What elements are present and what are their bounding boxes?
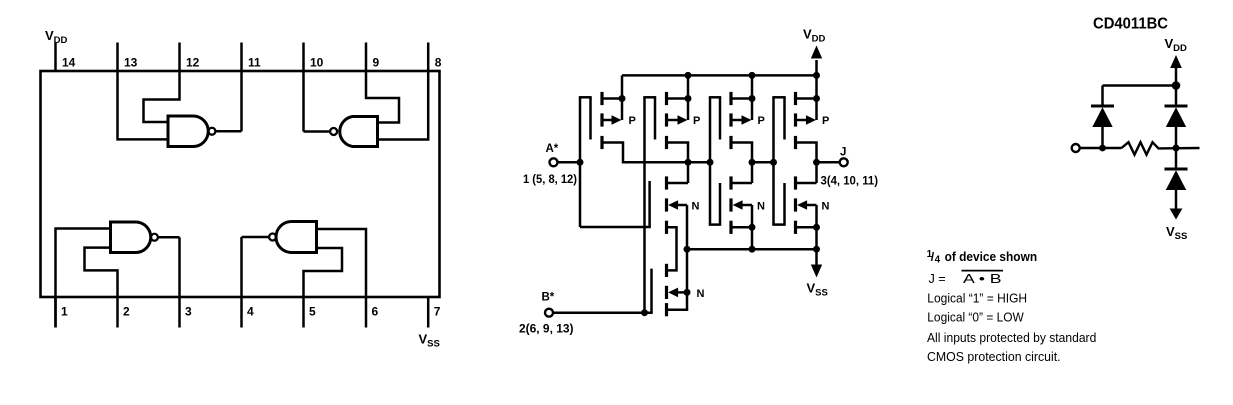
svg-text:4: 4 bbox=[935, 254, 941, 265]
svg-text:10: 10 bbox=[310, 56, 324, 70]
svg-text:A • B: A • B bbox=[963, 272, 1002, 286]
svg-text:N: N bbox=[697, 288, 705, 300]
svg-text:1: 1 bbox=[61, 305, 68, 319]
svg-text:9: 9 bbox=[373, 56, 380, 70]
svg-text:8: 8 bbox=[435, 56, 442, 70]
svg-text:A*: A* bbox=[546, 143, 559, 155]
svg-text:13: 13 bbox=[124, 56, 138, 70]
svg-text:Logical “0” = LOW: Logical “0” = LOW bbox=[927, 310, 1024, 324]
svg-text:of device shown: of device shown bbox=[945, 250, 1038, 264]
svg-text:P: P bbox=[822, 115, 829, 127]
svg-text:7: 7 bbox=[434, 305, 441, 319]
svg-text:11: 11 bbox=[248, 56, 261, 70]
svg-text:J: J bbox=[840, 147, 846, 159]
svg-text:N: N bbox=[822, 201, 830, 213]
svg-text:All inputs protected by standa: All inputs protected by standard bbox=[927, 331, 1096, 345]
svg-text:CD4011BC: CD4011BC bbox=[1093, 16, 1168, 33]
svg-text:5: 5 bbox=[309, 305, 316, 319]
svg-text:6: 6 bbox=[372, 305, 379, 319]
svg-text:2: 2 bbox=[123, 305, 130, 319]
svg-text:3(4, 10, 11): 3(4, 10, 11) bbox=[821, 176, 879, 188]
svg-text:3: 3 bbox=[185, 305, 192, 319]
svg-text:1 (5, 8, 12): 1 (5, 8, 12) bbox=[523, 174, 577, 186]
svg-text:P: P bbox=[758, 115, 765, 127]
svg-text:P: P bbox=[629, 115, 636, 127]
svg-text:N: N bbox=[757, 201, 765, 213]
svg-text:CMOS protection circuit.: CMOS protection circuit. bbox=[927, 350, 1061, 364]
svg-text:Logical “1” = HIGH: Logical “1” = HIGH bbox=[927, 292, 1027, 306]
svg-text:12: 12 bbox=[186, 56, 200, 70]
svg-text:P: P bbox=[693, 115, 700, 127]
svg-text:B*: B* bbox=[542, 292, 555, 304]
svg-text:J =: J = bbox=[929, 272, 946, 286]
svg-text:2(6, 9, 13): 2(6, 9, 13) bbox=[519, 324, 574, 336]
svg-text:N: N bbox=[692, 201, 700, 213]
svg-text:4: 4 bbox=[247, 305, 254, 319]
svg-text:14: 14 bbox=[62, 56, 76, 70]
